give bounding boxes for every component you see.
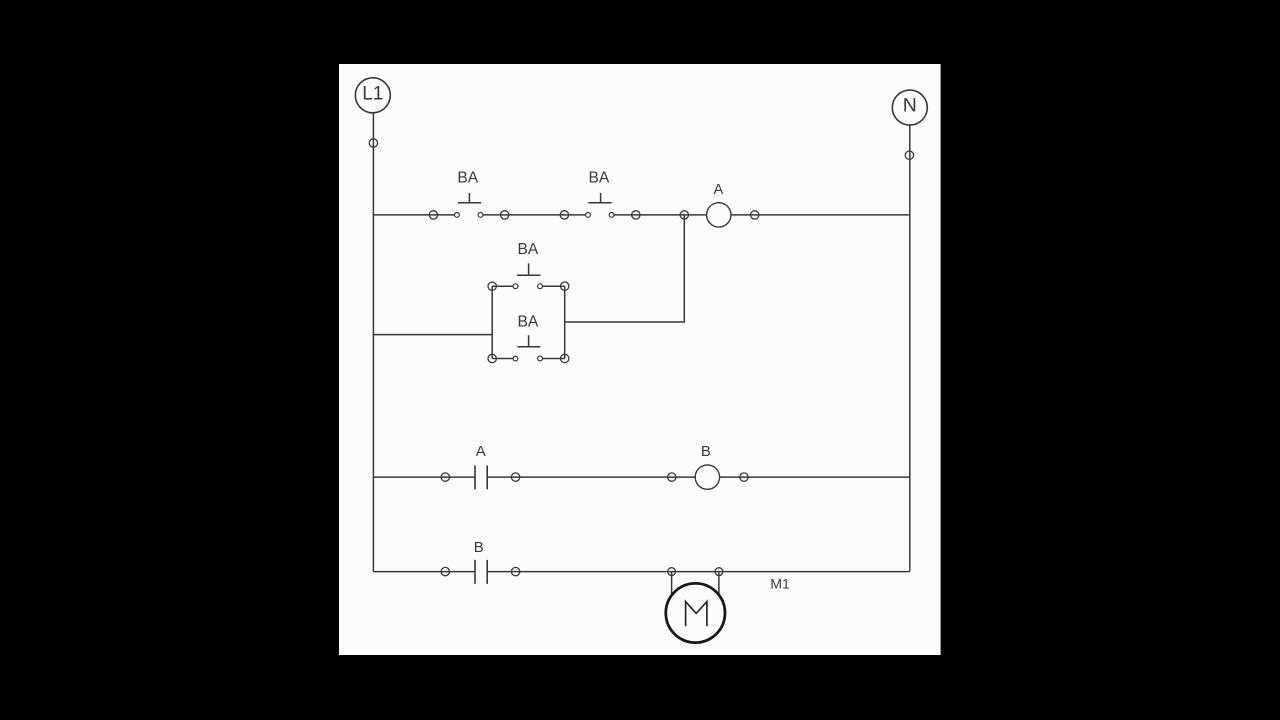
pushbutton BA no.4 (box bottom) [488,313,569,362]
wire: right rail N vertical [909,125,911,571]
wire: box bottom-left segment [492,358,515,360]
svg-text:A: A [476,443,486,460]
wire: box bottom-right segment [540,358,565,360]
junction node rung1/branch [680,211,688,219]
wire: branch drop from rung1 junction to parallel box [565,215,685,322]
wire: left feed from rail into box [373,334,492,336]
svg-text:M1: M1 [770,576,790,592]
node on left rail [369,139,377,147]
wire: rung2 segment right [487,476,910,478]
wire: rung2 segment left [373,476,475,478]
white drawing panel [339,64,941,655]
wire: rung1 segment left [373,214,457,216]
contact B on rung3 [441,539,520,584]
wire: rung3 segment right [487,571,910,573]
wire: left rail L1 vertical [372,113,374,572]
svg-text:A: A [714,182,724,198]
node on right rail [905,151,913,159]
wire: motor right lead drop [718,572,720,595]
svg-text:B: B [701,443,711,460]
terminal N [892,90,927,125]
svg-text:BA: BA [588,169,609,186]
wire: parallel box right vertical [564,286,566,358]
pushbutton BA no.3 (box top) [488,241,569,291]
svg-text:BA: BA [457,169,478,186]
coil B [668,443,749,489]
svg-text:N: N [903,95,917,117]
svg-text:B: B [474,539,484,556]
wire: motor left lead drop [671,572,673,596]
terminal L1 [355,78,390,113]
motor M1 [666,568,790,643]
contact A on rung2 [441,443,520,489]
wire: rung3 segment left [373,571,475,573]
svg-text:L1: L1 [362,83,383,104]
wire: box top-left segment [492,285,515,287]
pushbutton BA no.1 on rung1 [429,169,509,219]
wire: parallel box left vertical [491,286,493,358]
svg-text:BA: BA [517,241,538,258]
svg-text:BA: BA [517,313,538,330]
wire: box top-right segment [540,285,565,287]
pushbutton BA no.2 on rung1 [560,169,640,219]
wire: rung1 segment right [612,214,910,216]
coil A [707,182,759,227]
wire: rung1 segment middle [481,214,589,216]
